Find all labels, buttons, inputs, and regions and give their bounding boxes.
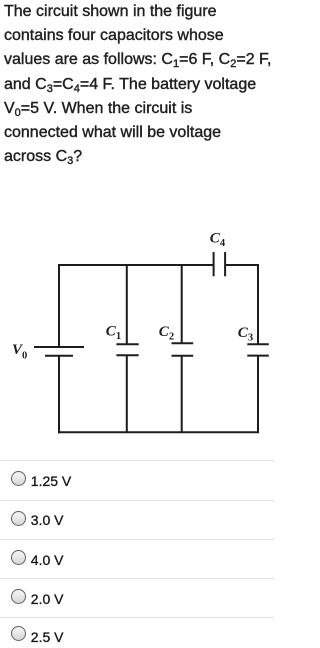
wire: C2 branch upper bbox=[181, 264, 183, 343]
capacitor C2 top plate bbox=[172, 342, 194, 344]
wire: left vertical lower bbox=[58, 356, 60, 434]
wire: left vertical upper (to battery) bbox=[58, 264, 60, 347]
wire: C2 branch lower bbox=[181, 356, 183, 433]
capacitor C1 bottom plate bbox=[116, 354, 138, 356]
capacitor C1 top plate bbox=[116, 343, 138, 345]
question text bbox=[4, 0, 274, 169]
capacitor C4 left plate bbox=[213, 252, 215, 276]
wire: C3 branch lower bbox=[257, 356, 259, 433]
battery V0 long plate bbox=[34, 346, 84, 348]
svg-text:C1: C1 bbox=[106, 323, 121, 342]
wire: C1 branch lower bbox=[126, 355, 128, 432]
wire: top rail right of C4 bbox=[225, 265, 258, 266]
capacitor C2 bottom plate bbox=[172, 355, 194, 357]
svg-text:C3: C3 bbox=[238, 325, 253, 344]
svg-text:C2: C2 bbox=[159, 324, 174, 343]
svg-text:V0: V0 bbox=[12, 342, 27, 362]
wire: bottom rail bbox=[58, 431, 259, 433]
battery V0 short plate bbox=[45, 355, 73, 357]
capacitor C3 bottom plate bbox=[247, 355, 268, 357]
svg-text:C4: C4 bbox=[210, 230, 226, 249]
wire: top rail left of C4 bbox=[59, 265, 214, 266]
answer options bbox=[0, 460, 274, 498]
wire: C1 branch upper bbox=[126, 264, 128, 344]
wire: C3 branch upper bbox=[257, 264, 259, 344]
capacitor C4 right plate bbox=[224, 252, 226, 276]
capacitor C3 top plate bbox=[247, 343, 268, 345]
